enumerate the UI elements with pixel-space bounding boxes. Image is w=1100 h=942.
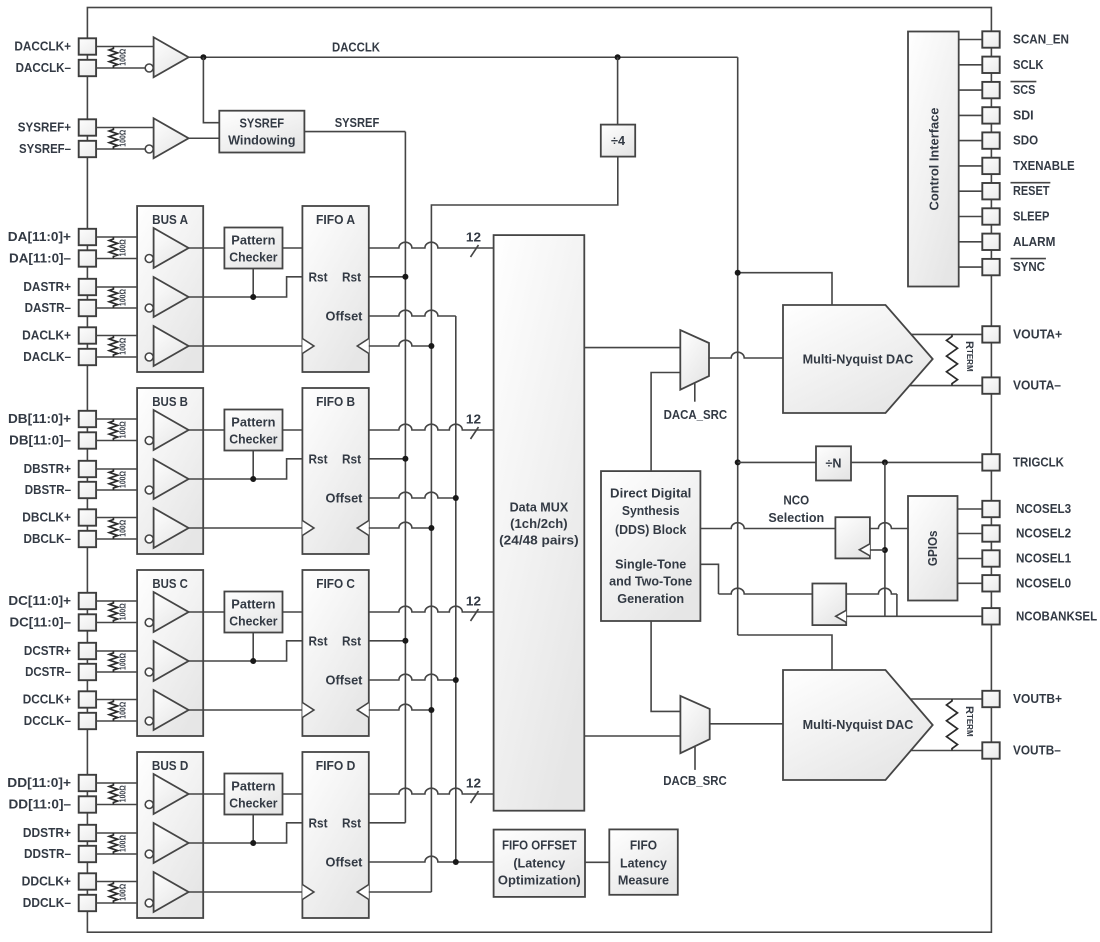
wire Pattern Checker A reset stub — [252, 269, 254, 298]
wire buffer to Pattern Checker A — [189, 247, 225, 249]
resistor 100Ω DC termination — [109, 700, 117, 722]
svg-text:(24/48 pairs): (24/48 pairs) — [499, 534, 579, 548]
svg-text:DDCLK–: DDCLK– — [23, 896, 71, 910]
wire DDS to DACA_SRC input — [651, 373, 680, 472]
svg-text:FIFO B: FIFO B — [316, 395, 355, 409]
junction Rst B SYSREF net — [402, 456, 408, 462]
svg-text:Checker: Checker — [229, 797, 277, 811]
block FIFO C — [302, 570, 368, 736]
svg-text:Measure: Measure — [618, 873, 669, 887]
wire DACA_SRC select stub — [694, 383, 696, 402]
pin VOUTB− — [982, 742, 999, 758]
overbar RESET — [1011, 182, 1051, 184]
buffer DDSTR — [154, 823, 189, 863]
junction offset B — [453, 495, 459, 501]
svg-text:TRIGCLK: TRIGCLK — [1013, 455, 1064, 469]
resistor 100Ω DB termination — [109, 469, 117, 490]
wire Pattern Checker A to FIFO — [283, 247, 303, 249]
pin NCOSEL3 — [982, 501, 999, 517]
wire FIFO B data bus to Data MUX — [369, 424, 494, 430]
wire Data MUX to DACB_SRC input — [584, 735, 680, 737]
pin VOUTA+ — [982, 326, 999, 342]
junction clock A — [428, 343, 434, 349]
buffer DDCLK — [154, 872, 189, 912]
svg-text:Multi-Nyquist DAC: Multi-Nyquist DAC — [803, 352, 914, 366]
wire SYSREF vertical net — [404, 132, 406, 823]
register NCO select 2 — [812, 584, 846, 626]
pin DDCLK- — [79, 895, 96, 911]
pin SYNC — [982, 259, 999, 275]
clock wedge FIFO C right — [357, 703, 369, 718]
svg-text:Checker: Checker — [229, 615, 277, 629]
block BUS B — [137, 388, 203, 554]
svg-text:100Ω: 100Ω — [119, 239, 128, 257]
block FIFO OFFSET Latency Optimization — [494, 830, 585, 897]
svg-text:Rst: Rst — [308, 634, 328, 648]
junction Pattern Checker D / STR — [250, 840, 256, 846]
pin TXENABLE — [982, 158, 999, 174]
svg-text:NCOSEL3: NCOSEL3 — [1016, 502, 1071, 516]
wire DA pair+ to buffer — [96, 286, 154, 288]
pin DA[11:0]- — [79, 250, 96, 266]
svg-text:÷N: ÷N — [826, 457, 842, 471]
wire DCSTR buffer to FIFO Rst — [189, 641, 303, 661]
clock wedge FIFO D right — [357, 885, 369, 900]
svg-text:100Ω: 100Ω — [119, 834, 128, 852]
svg-text:Pattern: Pattern — [231, 780, 275, 794]
wire FIFO A offset to offset net — [369, 310, 456, 316]
wire TRIGCLK net — [738, 461, 816, 463]
pin DBSTR+ — [79, 461, 96, 477]
wire DDSTR buffer to FIFO Rst — [189, 823, 303, 843]
svg-text:DACCLK+: DACCLK+ — [14, 40, 71, 54]
svg-text:SYSREF–: SYSREF– — [19, 142, 71, 156]
block FIFO Latency Measure — [609, 829, 678, 894]
resistor 100Ω DA termination — [109, 287, 117, 308]
pin SCS — [982, 82, 999, 98]
svg-text:DACLK–: DACLK– — [23, 350, 71, 364]
pin NCOSEL0 — [982, 575, 999, 591]
pin SLEEP — [982, 208, 999, 224]
svg-text:NCO: NCO — [783, 494, 809, 508]
wire FIFO D offset to FIFO OFFSET block — [369, 856, 494, 862]
wire DBCLK buffer to FIFO clock — [189, 527, 303, 529]
block Multi-Nyquist DAC B — [783, 670, 933, 780]
wire DA pair− to buffer — [96, 307, 145, 309]
wire FIFO B clock from clock net — [369, 522, 432, 528]
svg-text:Checker: Checker — [229, 433, 277, 447]
wire register 2 to NCOBANKSEL — [846, 588, 897, 594]
svg-text:DD[11:0]–: DD[11:0]– — [9, 798, 72, 812]
wire FIFO A data bus to Data MUX — [369, 242, 494, 248]
junction register 1 clock — [882, 547, 888, 553]
svg-text:DACA_SRC: DACA_SRC — [664, 408, 728, 422]
buffer DC data — [154, 592, 189, 632]
svg-text:Pattern: Pattern — [231, 234, 275, 248]
wire DD pair− to buffer — [96, 902, 145, 904]
wire DASTR buffer to FIFO Rst — [189, 277, 303, 297]
wire FIFO A Rst to SYSREF net — [369, 276, 406, 278]
resistor 100Ω DD termination — [109, 783, 117, 805]
block FIFO B — [302, 388, 368, 554]
pin DC[11:0]+ — [79, 593, 96, 609]
svg-text:DBSTR+: DBSTR+ — [24, 462, 71, 476]
wire DACA_SRC output to DAC A — [709, 352, 783, 358]
buffer DA data — [154, 228, 189, 268]
svg-text:BUS A: BUS A — [152, 213, 188, 227]
svg-text:BUS D: BUS D — [152, 759, 189, 773]
wire DC pair− to buffer — [96, 720, 145, 722]
wire DBSTR buffer to FIFO Rst — [189, 459, 303, 479]
svg-text:100Ω: 100Ω — [119, 337, 128, 355]
junction Pattern Checker C / STR — [250, 658, 256, 664]
svg-text:100Ω: 100Ω — [119, 470, 128, 488]
wire Control Interface to SCAN_EN — [959, 39, 983, 41]
pin DDSTR+ — [79, 825, 96, 841]
svg-text:VOUTB+: VOUTB+ — [1013, 692, 1062, 706]
block FIFO A — [302, 206, 368, 372]
svg-text:100Ω: 100Ω — [119, 519, 128, 537]
svg-text:100Ω: 100Ω — [119, 603, 128, 621]
svg-text:12: 12 — [466, 777, 481, 791]
svg-text:SCLK: SCLK — [1013, 58, 1044, 72]
svg-text:12: 12 — [466, 595, 481, 609]
wire Pattern Checker D reset stub — [252, 815, 254, 844]
svg-text:DASTR–: DASTR– — [25, 301, 71, 315]
svg-text:(DDS) Block: (DDS) Block — [615, 523, 686, 537]
pin DACCLK− — [79, 60, 96, 76]
svg-text:DACCLK: DACCLK — [332, 41, 380, 55]
svg-text:DB[11:0]+: DB[11:0]+ — [8, 412, 71, 426]
wire Pattern Checker D to FIFO — [283, 793, 303, 795]
svg-text:DACCLK–: DACCLK– — [16, 61, 71, 75]
wire DACB_SRC output to DAC B — [710, 723, 783, 725]
svg-text:NCOSEL2: NCOSEL2 — [1016, 527, 1071, 541]
junction TRIGCLK to NCO clock — [882, 459, 888, 465]
svg-text:SDI: SDI — [1013, 108, 1034, 122]
svg-text:Single-Tone: Single-Tone — [615, 558, 686, 572]
buffer DASTR — [154, 277, 189, 317]
svg-text:FIFO C: FIFO C — [316, 577, 355, 591]
resistor 100Ω DC termination — [109, 601, 117, 623]
wire DACCLK net — [189, 56, 738, 58]
svg-text:FIFO OFFSET: FIFO OFFSET — [502, 839, 577, 853]
resistor 100Ω DC termination — [109, 651, 117, 672]
svg-text:DC[11:0]+: DC[11:0]+ — [8, 594, 71, 608]
pin NCOSEL2 — [982, 525, 999, 541]
svg-text:BUS B: BUS B — [152, 395, 188, 409]
svg-text:100Ω: 100Ω — [119, 785, 128, 803]
svg-text:Rst: Rst — [308, 816, 328, 830]
svg-text:RESET: RESET — [1013, 184, 1050, 198]
block Data MUX — [494, 235, 585, 811]
wire DC pair− to buffer — [96, 622, 145, 624]
svg-text:SYSREF: SYSREF — [240, 117, 285, 131]
divider block ÷N — [816, 446, 851, 480]
svg-text:Rst: Rst — [308, 452, 328, 466]
block BUS A — [137, 206, 203, 372]
svg-text:FIFO D: FIFO D — [316, 759, 356, 773]
svg-text:Pattern: Pattern — [231, 416, 275, 430]
svg-text:100Ω: 100Ω — [119, 883, 128, 901]
pin DACLK+ — [79, 327, 96, 343]
wire DACCLK+ to buffer — [96, 46, 154, 48]
pin SYSREF− — [79, 141, 96, 157]
svg-text:Direct Digital: Direct Digital — [610, 487, 691, 501]
svg-text:Pattern: Pattern — [231, 598, 275, 612]
svg-text:DDSTR–: DDSTR– — [24, 847, 71, 861]
svg-text:DACB_SRC: DACB_SRC — [663, 774, 726, 788]
mux DACB_SRC — [680, 696, 709, 753]
wire DCCLK buffer to FIFO clock — [189, 709, 303, 711]
svg-text:FIFO A: FIFO A — [316, 213, 355, 227]
junction trunk TRIGCLK — [735, 459, 741, 465]
wire DB pair+ to buffer — [96, 468, 154, 470]
svg-text:Multi-Nyquist DAC: Multi-Nyquist DAC — [803, 718, 914, 732]
wire trunk to DAC A clock — [738, 273, 832, 305]
pin SDO — [982, 132, 999, 148]
svg-text:DCSTR+: DCSTR+ — [24, 644, 71, 658]
block BUS D — [137, 752, 203, 918]
svg-text:Selection: Selection — [768, 511, 824, 525]
mux DACA_SRC — [680, 330, 709, 390]
pin DCCLK+ — [79, 691, 96, 707]
wire Pattern Checker C to FIFO — [283, 611, 303, 613]
svg-text:Optimization): Optimization) — [498, 873, 581, 887]
wire FIFO C Rst to SYSREF net — [369, 640, 406, 642]
pin DA[11:0]+ — [79, 229, 96, 245]
svg-text:and Two-Tone: and Two-Tone — [609, 575, 692, 589]
block Multi-Nyquist DAC A — [783, 305, 933, 413]
block BUS C — [137, 570, 203, 736]
wire DDS to NCO register 2 — [700, 564, 718, 594]
svg-text:12: 12 — [466, 413, 481, 427]
bus width slash A — [471, 245, 479, 257]
pin DBCLK+ — [79, 509, 96, 525]
svg-text:Rst: Rst — [342, 452, 362, 466]
svg-text:Synthesis: Synthesis — [622, 504, 680, 518]
resistor 100Ω DB termination — [109, 518, 117, 540]
wire FIFO C data bus to Data MUX — [369, 606, 494, 612]
svg-text:TXENABLE: TXENABLE — [1013, 159, 1075, 173]
wire register 1 to GPIOs — [870, 523, 908, 529]
junction trunk DAC A — [735, 270, 741, 276]
pin SDI — [982, 107, 999, 123]
svg-text:SYSREF+: SYSREF+ — [18, 121, 71, 135]
pin TRIGCLK — [982, 454, 999, 470]
resistor 100Ω DACCLK termination — [109, 47, 117, 69]
pin SYSREF+ — [79, 119, 96, 135]
svg-text:Offset: Offset — [326, 492, 364, 506]
wire DAC A to VOUTA− — [910, 385, 982, 387]
pin NCOSEL1 — [982, 550, 999, 566]
junction offset D — [453, 859, 459, 865]
buffer DD data — [154, 774, 189, 814]
wire DA pair+ to buffer — [96, 335, 154, 337]
wire DC pair+ to buffer — [96, 650, 154, 652]
wire buffer to Pattern Checker D — [189, 793, 225, 795]
junction Rst A SYSREF net — [402, 274, 408, 280]
pin DB[11:0]- — [79, 432, 96, 448]
block Direct Digital Synthesis — [601, 471, 700, 621]
resistor 100Ω DB termination — [109, 419, 117, 441]
wire Control Interface to SDO — [959, 140, 983, 142]
buffer SYSREF input — [154, 118, 189, 158]
buffer DB data — [154, 410, 189, 450]
svg-text:100Ω: 100Ω — [119, 129, 128, 147]
block FIFO D — [302, 752, 368, 918]
svg-text:VOUTA+: VOUTA+ — [1013, 327, 1062, 341]
svg-text:12: 12 — [466, 231, 481, 245]
wire buffer to Pattern Checker C — [189, 611, 225, 613]
wire DA pair− to buffer — [96, 258, 145, 260]
resistor 100Ω SYSREF termination — [109, 128, 117, 150]
wire GPIOs to NCOSEL3 — [958, 508, 983, 510]
block Pattern Checker A — [224, 228, 282, 269]
wire GPIOs to NCOSEL0 — [958, 582, 983, 584]
svg-text:RTERM: RTERM — [963, 341, 975, 372]
pin VOUTB+ — [982, 691, 999, 707]
svg-text:NCOBANKSEL: NCOBANKSEL — [1016, 609, 1097, 623]
pin DASTR+ — [79, 279, 96, 295]
wire Pattern Checker C reset stub — [252, 633, 254, 662]
block Pattern Checker B — [224, 410, 282, 451]
junction clock C — [428, 707, 434, 713]
junction DACCLK to divider — [615, 54, 621, 60]
resistor RTERM A — [947, 334, 958, 385]
svg-text:SCAN_EN: SCAN_EN — [1013, 33, 1069, 47]
bus width slash B — [471, 427, 479, 439]
svg-text:Control Interface: Control Interface — [927, 108, 941, 211]
svg-text:DD[11:0]+: DD[11:0]+ — [7, 776, 71, 790]
pin ALARM — [982, 234, 999, 250]
wire FIFO D Rst to SYSREF net — [369, 822, 406, 824]
wire DC pair+ to buffer — [96, 699, 154, 701]
wire DDCLK buffer to FIFO clock — [189, 891, 303, 893]
pin SCAN_EN — [982, 31, 999, 47]
svg-text:VOUTA–: VOUTA– — [1013, 379, 1061, 393]
wire GPIOs to NCOSEL2 — [958, 533, 983, 535]
junction Rst C SYSREF net — [402, 638, 408, 644]
junction clock B — [428, 525, 434, 531]
wire register 1 clock tap — [870, 549, 885, 551]
wire trunk to DAC B clock — [738, 635, 832, 670]
register NCO select 1 — [835, 517, 870, 558]
wire DD pair+ to buffer — [96, 881, 154, 883]
wire DAC B to VOUTB− — [910, 750, 982, 752]
svg-text:FIFO: FIFO — [630, 839, 657, 853]
svg-text:DCCLK+: DCCLK+ — [23, 693, 71, 707]
wire FIFO D clock from clock net — [369, 891, 432, 893]
svg-text:SLEEP: SLEEP — [1013, 210, 1049, 224]
svg-text:SDO: SDO — [1013, 134, 1038, 148]
pin DD[11:0]+ — [79, 775, 96, 791]
wire Control Interface to SCS — [959, 89, 983, 91]
buffer DCCLK — [154, 690, 189, 730]
svg-text:BUS C: BUS C — [152, 577, 187, 591]
svg-text:NCOSEL0: NCOSEL0 — [1016, 576, 1071, 590]
junction DACCLK to SYSREF windowing — [200, 54, 206, 60]
svg-text:DBSTR–: DBSTR– — [25, 483, 71, 497]
wire DDS to NCO register 1 — [700, 523, 835, 529]
block Control Interface — [908, 32, 959, 287]
wire FIFO OFFSET to FIFO Latency Measure — [585, 861, 609, 863]
svg-text:Checker: Checker — [229, 251, 277, 265]
svg-text:SYSREF: SYSREF — [335, 116, 380, 130]
svg-text:(1ch/2ch): (1ch/2ch) — [510, 517, 568, 531]
pin VOUTA− — [982, 377, 999, 393]
pin DCSTR- — [79, 664, 96, 680]
svg-text:GPIOs: GPIOs — [926, 530, 940, 566]
wire DD pair− to buffer — [96, 804, 145, 806]
clock wedge FIFO A right — [357, 339, 369, 354]
wire DACCLK to SYSREF Windowing — [203, 57, 219, 122]
svg-text:(Latency: (Latency — [513, 857, 565, 871]
junction Pattern Checker B / STR — [250, 476, 256, 482]
svg-text:100Ω: 100Ω — [119, 48, 128, 66]
wire SYSREF output net — [304, 131, 405, 133]
svg-text:DDSTR+: DDSTR+ — [23, 826, 71, 840]
wire DB pair+ to buffer — [96, 517, 154, 519]
bus width slash D — [471, 791, 479, 803]
svg-text:DCSTR–: DCSTR– — [25, 665, 71, 679]
pin DC[11:0]- — [79, 614, 96, 630]
wire DA pair+ to buffer — [96, 236, 154, 238]
svg-text:÷4: ÷4 — [611, 134, 625, 148]
wire DACB_SRC select stub — [694, 747, 696, 770]
wire DACCLK− to buffer — [96, 67, 145, 69]
wire FIFO B Rst to SYSREF net — [369, 458, 406, 460]
svg-text:100Ω: 100Ω — [119, 652, 128, 670]
svg-text:DACLK+: DACLK+ — [22, 329, 71, 343]
wire Control Interface to SDI — [959, 114, 983, 116]
clock wedge register 1 — [859, 544, 870, 556]
svg-text:Generation: Generation — [617, 592, 684, 606]
wire buffer to Pattern Checker B — [189, 429, 225, 431]
buffer DBCLK — [154, 508, 189, 548]
clock wedge FIFO C left — [302, 703, 314, 718]
wire Control Interface to RESET — [959, 190, 983, 192]
wire Control Interface to SYNC — [959, 266, 983, 268]
svg-text:Offset: Offset — [326, 310, 364, 324]
wire DA pair− to buffer — [96, 356, 145, 358]
wire FIFO offset vertical net — [455, 316, 457, 862]
wire DAC B to VOUTB+ — [911, 698, 982, 700]
clock wedge FIFO B left — [302, 521, 314, 536]
svg-text:SCS: SCS — [1013, 83, 1035, 97]
resistor 100Ω DD termination — [109, 833, 117, 854]
wire DB pair− to buffer — [96, 538, 145, 540]
svg-text:DBCLK–: DBCLK– — [24, 532, 72, 546]
svg-text:Rst: Rst — [342, 816, 362, 830]
svg-text:Latency: Latency — [620, 856, 667, 870]
pin DCCLK- — [79, 713, 96, 729]
wire Pattern Checker B reset stub — [252, 451, 254, 480]
pin NCOBANKSEL — [982, 608, 999, 624]
pin DCSTR+ — [79, 643, 96, 659]
bus width slash C — [471, 609, 479, 621]
svg-text:ALARM: ALARM — [1013, 235, 1055, 249]
wire DACLK buffer to FIFO clock — [189, 345, 303, 347]
svg-text:100Ω: 100Ω — [119, 421, 128, 439]
svg-text:DCCLK–: DCCLK– — [24, 714, 71, 728]
pin DASTR- — [79, 300, 96, 316]
block Pattern Checker C — [224, 592, 282, 633]
svg-text:DDCLK+: DDCLK+ — [22, 875, 71, 889]
wire DD pair− to buffer — [96, 853, 145, 855]
wire buffer to SYSREF Windowing — [189, 137, 220, 139]
wire Control Interface to SCLK — [959, 64, 983, 66]
